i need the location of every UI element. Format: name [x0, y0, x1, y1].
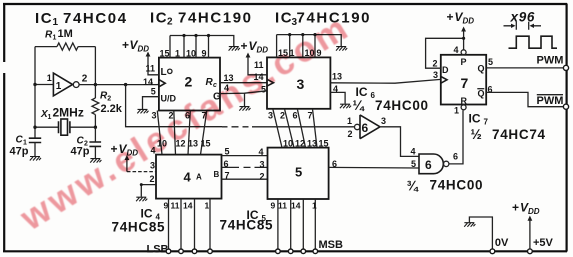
- svg-text:2: 2: [82, 74, 88, 85]
- svg-text:15: 15: [201, 138, 211, 148]
- pin labels IC5 top 10 12 13 15: [283, 138, 329, 148]
- pin labels IC4 left 4 3 2: [150, 146, 156, 185]
- watermark www.elecfans.com: [13, 5, 358, 239]
- pin labels IC2 top: [160, 49, 207, 59]
- node input junction: [33, 83, 36, 86]
- svg-text:DD: DD: [463, 17, 475, 26]
- svg-text:B: B: [214, 170, 220, 179]
- IC3 label 74HC190: [275, 10, 371, 28]
- pin 4 IC2 and pin 5 IC3 wire to ground: [220, 83, 267, 106]
- svg-text:3: 3: [433, 70, 438, 80]
- svg-text:MSB: MSB: [319, 239, 344, 251]
- svg-text:IC: IC: [141, 207, 153, 221]
- pin labels IC2 bottom 3 2 6 7: [152, 111, 207, 121]
- clock pin 14 IC2: [143, 77, 165, 87]
- svg-text:x96: x96: [510, 10, 536, 25]
- svg-text:2: 2: [167, 17, 173, 28]
- svg-text:A: A: [196, 173, 202, 182]
- svg-text:2MHz: 2MHz: [53, 106, 84, 120]
- node crystal left: [33, 126, 36, 129]
- wire IC4 pin 1 to bus: [209, 199, 211, 251]
- pin 4 preset bubble: [461, 50, 466, 55]
- pin labels cascade 5 6 7 / 4 3 2: [224, 146, 265, 181]
- wire IC5 pin 9 to bus: [277, 199, 279, 251]
- IC5 label 74HC85: [220, 208, 274, 233]
- svg-text:11: 11: [171, 201, 180, 211]
- IC4 label 74HC85: [112, 207, 166, 235]
- wire IC2 pin 3 to IC4 pin 10: [157, 111, 162, 155]
- wire IC5 pin 14 to bus: [302, 199, 304, 251]
- svg-text:IC: IC: [469, 112, 481, 126]
- pin 5 U/D IC2: [143, 87, 177, 110]
- svg-text:74HC00: 74HC00: [375, 98, 429, 113]
- svg-text:4: 4: [411, 147, 416, 157]
- svg-text:+: +: [512, 201, 519, 215]
- svg-text:IC: IC: [275, 10, 293, 27]
- pin 13 IC2 to pin 14 IC3 wire: [220, 73, 267, 83]
- wire IC2 pin 6 to IC4 pin 13: [188, 111, 190, 155]
- wire IC4 pin 11 to bus: [180, 199, 182, 251]
- wire IC4 pin 2 to ground: [141, 185, 156, 197]
- pin labels IC4 top 10 12 13 15: [157, 138, 211, 148]
- svg-text:74HC00: 74HC00: [430, 178, 484, 193]
- node inverted PWM terminal: [563, 104, 568, 109]
- pin labels IC5 bottom 9 11 14 1: [271, 201, 318, 211]
- wire IC3 pin 2 to IC5 pin 12: [285, 109, 295, 148]
- svg-text:74HC85: 74HC85: [220, 218, 274, 233]
- pin labels IC7 left 2 3: [433, 58, 439, 80]
- svg-text:IC: IC: [150, 9, 168, 26]
- svg-text:D: D: [442, 65, 449, 75]
- node PWM terminal: [563, 65, 568, 70]
- svg-text:7: 7: [484, 118, 489, 127]
- svg-text:1: 1: [175, 49, 180, 59]
- ground C1: [30, 157, 41, 161]
- wire IC2 pin 7 to IC4 pin 15: [201, 111, 207, 155]
- svg-text:P: P: [461, 57, 467, 67]
- svg-text:2.2k: 2.2k: [101, 103, 123, 115]
- svg-text:LSB: LSB: [147, 244, 169, 256]
- svg-text:2: 2: [107, 96, 111, 103]
- svg-text:9: 9: [271, 201, 276, 211]
- wire inverter input dashed section: [222, 126, 354, 128]
- ground IC2 data pins: [229, 47, 240, 51]
- node output junction: [94, 83, 97, 86]
- clock pin 14 IC3: [254, 72, 274, 86]
- svg-text:+: +: [241, 39, 248, 53]
- svg-text:2: 2: [348, 129, 353, 139]
- pin 6 IC5 output wire to NAND pin 5: [329, 159, 419, 169]
- svg-text:1: 1: [53, 35, 57, 42]
- wire IC4 pin 9 to bus: [168, 199, 170, 251]
- wire IC3 pin 7 to IC5 pin 15: [313, 109, 318, 148]
- svg-text:½: ½: [471, 127, 483, 142]
- node crystal right: [94, 126, 97, 129]
- IC1 label 74HC04: [35, 10, 128, 28]
- counter IC3 74HC190 box 3: [267, 57, 330, 108]
- resistor R2 2.2k: [92, 85, 123, 128]
- node 0V terminal circle: [490, 249, 495, 254]
- svg-text:5: 5: [225, 146, 230, 156]
- svg-text:2: 2: [150, 174, 155, 184]
- wire feedback right vertical: [94, 47, 96, 85]
- clock triangle IC7 pin 3: [441, 76, 447, 83]
- svg-text:5: 5: [151, 87, 156, 97]
- op-amp U1 inverter gate IC1 pin1-2: [47, 73, 88, 96]
- wire IC4 pin 5 to IC5 pin 4: [222, 155, 268, 157]
- svg-text:5: 5: [411, 159, 416, 169]
- capacitor C1 47p: [10, 135, 42, 158]
- comparator IC4 74HC85 box 4: [156, 155, 222, 199]
- svg-text:74HC74: 74HC74: [492, 127, 546, 142]
- crystal X1 2MHz: [35, 106, 95, 136]
- svg-text:U/D: U/D: [161, 93, 177, 103]
- ground IC2 U/D: [137, 109, 148, 113]
- svg-text:1: 1: [48, 114, 52, 121]
- ground IC4 pin 2: [136, 197, 147, 201]
- svg-text:DD: DD: [528, 207, 540, 216]
- ground 0V terminal: [469, 217, 509, 250]
- svg-text:74HC85: 74HC85: [112, 220, 166, 235]
- svg-text:11: 11: [278, 201, 287, 211]
- svg-text:+5V: +5V: [533, 237, 554, 249]
- flip-flop IC7 74HC74 box 7: [441, 55, 486, 105]
- svg-text:4: 4: [259, 147, 264, 157]
- wire IC2 data pins 15,1,10,9 to top bus: [170, 34, 234, 58]
- wire inverter output to clock line: [79, 84, 159, 85]
- svg-text:9: 9: [164, 201, 169, 211]
- IC2 label 74HC190: [150, 9, 253, 27]
- counter IC2 74HC190 box 2: [159, 58, 220, 111]
- wire IC2 pin 2 to IC4 pin 12: [174, 111, 176, 155]
- label x96 waveform annotation: [504, 10, 542, 30]
- pin label Lo (load) inside IC2: [161, 67, 173, 78]
- power +5V terminal with +VDD arrow: [512, 201, 554, 250]
- svg-text:1: 1: [312, 201, 317, 211]
- svg-text:1: 1: [347, 116, 352, 126]
- pin 13 IC3 long wire to IC7 clock: [330, 72, 440, 84]
- svg-text:¾: ¾: [407, 179, 420, 194]
- wire bottom bus (frame bottom / LSB-MSB input bus): [3, 250, 567, 252]
- label 3/4 74HC00: [407, 178, 484, 194]
- svg-text:6: 6: [425, 158, 432, 172]
- gate IC6 inverter (NAND pins 1,2,3): [347, 115, 386, 139]
- svg-text:14: 14: [291, 201, 301, 211]
- svg-text:PWM: PWM: [537, 55, 564, 67]
- svg-text:1M: 1M: [58, 28, 73, 40]
- svg-text:1: 1: [56, 81, 62, 92]
- wire IC3 pin 6 to IC5 pin 13: [297, 109, 305, 148]
- wire NAND output to IC7 reset pin 1: [449, 110, 463, 163]
- node inverted PWM label with overline: [537, 95, 564, 107]
- svg-text:14: 14: [143, 77, 153, 87]
- pin labels IC4 bottom 9 11 14 1: [164, 201, 210, 211]
- ground IC2 pin4 / IC3 pin5: [239, 107, 250, 111]
- svg-text:DD: DD: [138, 45, 150, 54]
- node clock branch junction: [124, 83, 127, 86]
- svg-text:7: 7: [308, 111, 313, 121]
- wire 2MHz clock branch down to IC6 inverter input: [126, 85, 222, 127]
- svg-text:7: 7: [225, 170, 230, 180]
- svg-text:74HC04: 74HC04: [63, 10, 128, 27]
- pin labels IC3 bottom 3 2 6 7: [268, 111, 313, 121]
- wire IC4 pin 7 to IC5 pin 2: [222, 178, 268, 180]
- svg-text:1: 1: [454, 105, 459, 115]
- wire IC4 pin 14 to bus: [194, 199, 196, 251]
- svg-text:74HC190: 74HC190: [178, 9, 253, 26]
- svg-text:1: 1: [47, 73, 52, 83]
- ground C2: [90, 159, 101, 163]
- svg-text:6: 6: [224, 159, 229, 169]
- svg-text:4: 4: [184, 170, 192, 185]
- svg-text:5: 5: [295, 165, 303, 180]
- bus terminal circles IC4: [166, 249, 212, 254]
- pin 4 IC3 wire to ground: [330, 84, 345, 104]
- bus terminal circles IC5: [276, 249, 318, 254]
- svg-text:6: 6: [453, 152, 458, 162]
- power +VDD IC7: [447, 10, 475, 50]
- wire IC5 pin 1 to bus: [314, 199, 316, 251]
- border frame left: [3, 4, 5, 252]
- pin labels IC3 top: [278, 48, 322, 58]
- wire IC4 pin 6 to IC5 pin 3: [222, 166, 268, 168]
- node +5V terminal circle: [528, 249, 533, 254]
- svg-text:10: 10: [186, 49, 196, 59]
- border frame top: [3, 3, 567, 5]
- svg-text:+: +: [447, 10, 454, 24]
- svg-text:IC: IC: [35, 10, 53, 27]
- IC6 label 1/4 74HC00: [353, 85, 429, 113]
- svg-text:4: 4: [454, 45, 459, 55]
- border frame right: [565, 4, 567, 252]
- power +VDD IC3 pin 11: [241, 39, 269, 75]
- svg-text:1: 1: [53, 17, 59, 28]
- svg-text:6: 6: [293, 111, 298, 121]
- svg-text:PWM: PWM: [537, 95, 564, 107]
- wire IC5 pin 11 to bus: [290, 199, 292, 251]
- resistor R1 1M (feedback): [35, 28, 95, 50]
- ground IC3 data pins: [336, 47, 347, 51]
- svg-text:2: 2: [260, 171, 265, 181]
- svg-text:14: 14: [183, 201, 193, 211]
- wire feedback left vertical: [34, 47, 36, 85]
- ground symbol 0V: [464, 223, 475, 227]
- svg-text:Q: Q: [478, 88, 485, 98]
- svg-text:13: 13: [332, 72, 342, 82]
- svg-text:+: +: [122, 38, 129, 52]
- wire D loop to +VDD line: [426, 38, 464, 68]
- svg-text:Q: Q: [478, 63, 485, 73]
- svg-text:3: 3: [260, 159, 265, 169]
- svg-text:L: L: [161, 67, 167, 78]
- svg-text:11: 11: [146, 64, 156, 74]
- border frame left gap: [3, 62, 6, 73]
- svg-text:¼: ¼: [353, 98, 366, 113]
- pin label RC inside IC2: [206, 77, 218, 89]
- wire inverter input: [35, 84, 53, 86]
- capacitor C2 47p: [71, 127, 102, 158]
- svg-text:5: 5: [488, 57, 493, 67]
- svg-text:47p: 47p: [71, 146, 90, 158]
- wire IC6 output to NAND pin 4: [380, 127, 419, 157]
- svg-text:6: 6: [362, 121, 369, 135]
- ground IC3 pin 4: [340, 104, 351, 108]
- svg-text:3: 3: [268, 111, 273, 121]
- svg-text:9: 9: [202, 49, 207, 59]
- svg-text:0V: 0V: [495, 237, 509, 249]
- svg-text:15: 15: [160, 49, 170, 59]
- svg-text:2: 2: [185, 74, 194, 90]
- svg-text:47p: 47p: [10, 146, 29, 158]
- comparator IC5 74HC85 box 5: [268, 148, 329, 199]
- svg-text:7: 7: [461, 75, 470, 91]
- wire IC3 data pins 15,1,10,9 to top bus: [277, 33, 342, 57]
- svg-text:3: 3: [381, 116, 386, 126]
- pin 1 reset bubble: [461, 105, 466, 110]
- IC7 label 74HC74: [469, 112, 546, 142]
- pin 5 Q output wire to PWM: [478, 57, 564, 74]
- svg-text:3: 3: [297, 76, 306, 92]
- wire crystal left vertical: [34, 85, 36, 139]
- wire IC3 pin 3 to IC5 pin 10: [273, 109, 282, 148]
- svg-text:2: 2: [433, 58, 438, 68]
- svg-text:IC: IC: [356, 85, 368, 99]
- power +VDD IC4 cascade input pin 3: [111, 142, 157, 172]
- svg-text:1: 1: [205, 201, 210, 211]
- svg-text:2: 2: [280, 111, 285, 121]
- nand gate IC6b (pins 4,5,6) 3/4 74HC00: [411, 147, 459, 174]
- waveform PWM pulses: [509, 36, 558, 48]
- pin 6 Qbar output wire to inverted PWM: [477, 84, 563, 106]
- power +VDD IC2 pin 11: [122, 38, 159, 75]
